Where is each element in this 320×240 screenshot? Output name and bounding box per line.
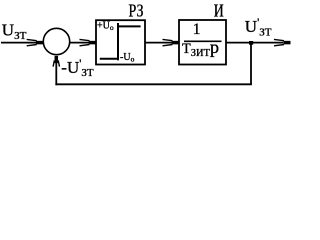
summing junction: [43, 28, 69, 54]
wire input to summer: [1, 42, 36, 44]
svg-text:И: И: [214, 0, 224, 20]
relay characteristic bottom (-Uo level): [100, 58, 118, 60]
block RZ (relay) box: [96, 20, 145, 64]
feedback wire bottom: [55, 83, 252, 85]
relay characteristic vertical: [117, 23, 119, 60]
fraction bar: [184, 40, 222, 42]
svg-text:+Uо: +Uо: [97, 21, 114, 32]
svg-text:1: 1: [193, 21, 201, 38]
relay characteristic top (+Uo level): [118, 25, 141, 27]
wire RZ to I: [145, 42, 172, 44]
wire I to output: [226, 42, 283, 44]
wire summer to RZ: [70, 42, 89, 44]
arrowhead into summer: [27, 39, 44, 45]
arrowhead into RZ: [80, 39, 97, 45]
arrowhead into I: [163, 39, 180, 45]
svg-text:-Uо: -Uо: [120, 52, 135, 63]
svg-text:РЗ: РЗ: [129, 0, 144, 20]
feedback wire up to summer: [55, 62, 57, 85]
junction dot on output wire: [249, 41, 253, 45]
block I (integrator) box: [179, 20, 226, 65]
output arrowhead: [274, 39, 291, 45]
feedback wire down: [250, 43, 252, 85]
arrowhead up into summer: [53, 56, 59, 67]
